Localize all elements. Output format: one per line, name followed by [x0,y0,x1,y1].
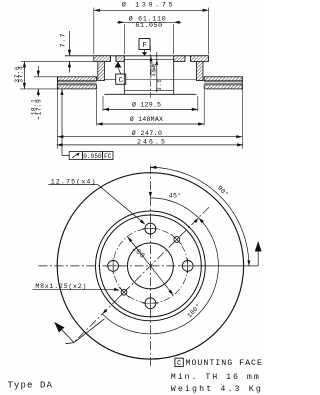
dim 18.1/17.9 [31,66,58,120]
bolt circle [113,229,188,304]
chamfer dim 3.5 [155,52,163,92]
svg-text:17.9: 17.9 [35,99,42,115]
band left [57,77,96,89]
dim 90deg arc [150,166,261,266]
bolt hole E [180,258,196,274]
hat top face line [65,55,209,57]
hat interior step line [104,79,196,81]
bolt hole W [105,258,121,274]
svg-text:C: C [119,77,124,85]
svg-text:100: 100 [130,245,146,260]
svg-text:45°: 45° [169,192,182,200]
svg-text:Ø 129.5: Ø 129.5 [132,100,161,108]
svg-text:C: C [177,360,181,368]
label type DA [8,380,53,390]
flange bottom line [21,60,94,62]
datum F [139,39,150,56]
svg-text:Weight 4.3 Kg: Weight 4.3 Kg [171,384,261,394]
dim diameter 129.5 [103,96,198,111]
svg-text:MOUNTING FACE: MOUNTING FACE [186,359,263,368]
svg-text:F: F [142,42,147,50]
bore bottom line [124,89,173,91]
svg-text:61.050: 61.050 [135,22,162,29]
centre bore circle [127,243,173,289]
flange left hatch [94,56,125,62]
hat flange circle [99,215,201,317]
datum C [115,61,126,85]
bore far-side line [124,58,173,60]
svg-text:Ø 139.75: Ø 139.75 [122,1,173,9]
label min thickness [171,372,259,382]
svg-text:Ø 61.110: Ø 61.110 [129,14,166,22]
dim diameter 61.110/61.050 [117,14,181,54]
dim 37.6/37.4 [14,61,58,89]
svg-text:90°: 90° [216,184,230,198]
runout tolerance frame [61,89,114,160]
bore wall left [123,59,125,94]
svg-text:Ø 148MAX: Ø 148MAX [130,115,163,123]
dim 180deg arc [102,218,218,334]
svg-text:Min. TH 16 mm: Min. TH 16 mm [171,372,259,382]
label 12.75 x4 [48,178,145,224]
svg-text:0.050: 0.050 [83,153,102,160]
svg-text:3.5: 3.5 [157,80,163,91]
threaded hole M8 NE [172,234,182,244]
band inner circle [95,211,205,321]
svg-text:246.5: 246.5 [137,138,165,145]
bolt hole S [143,295,159,311]
section centerline [149,46,151,100]
dim diameter 139.75 [94,1,209,55]
dim 246.5 [57,138,244,146]
dim 45deg arc [149,192,199,223]
dim diameter 100 bolt circle [127,237,173,296]
svg-text:M8x1.25(x2): M8x1.25(x2) [35,283,86,290]
label M8x1.25 x2 [33,283,120,291]
rotation direction arrow [54,319,104,344]
hat wall right [196,61,203,80]
svg-text:180°: 180° [185,302,202,319]
svg-text:37.4: 37.4 [18,66,25,83]
svg-text:Type DA: Type DA [8,380,53,390]
svg-text:FC: FC [104,153,112,160]
horizontal centerline [39,265,259,267]
label mounting face [175,358,262,368]
threaded hole M8 SW [119,287,129,297]
svg-text:7.7: 7.7 [60,33,67,47]
flange right hatch [174,56,209,62]
bore wall right [173,59,175,94]
dim diameter 247.0 [57,89,242,149]
vertical centerline [149,165,151,366]
label weight [171,384,261,394]
svg-text:Ø 247.0: Ø 247.0 [132,129,162,137]
hat bottom face line [104,93,196,95]
dim diameter 148MAX [97,90,205,126]
diagonal centerline 45deg [74,207,209,342]
bolt hole N [143,221,159,237]
dim 7.7 [60,31,72,73]
hat wall left [98,61,105,80]
band right [204,77,242,89]
chamfer dim 4.0x45 [150,56,158,77]
disc outer circle [57,173,243,359]
